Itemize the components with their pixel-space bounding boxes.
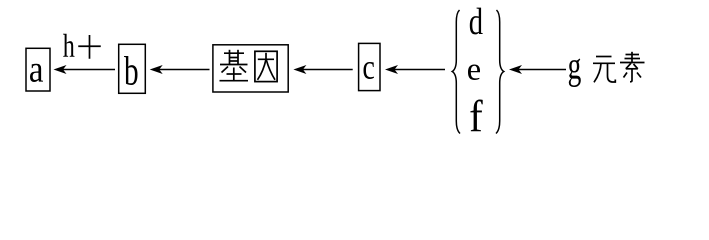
label plus sign bbox=[78, 35, 101, 59]
hanzi SU (element) strokes bbox=[620, 52, 645, 82]
label h bbox=[63, 34, 75, 57]
right curly brace bbox=[496, 10, 504, 134]
arrow 2 head bbox=[150, 65, 163, 74]
arrow 5 (g to brace) wire bbox=[518, 69, 567, 71]
arrow 1 head bbox=[54, 65, 67, 74]
left curly brace bbox=[452, 10, 460, 134]
letter f bbox=[470, 100, 482, 132]
box a bbox=[26, 48, 50, 91]
box gene (basic) bbox=[213, 45, 288, 92]
arrow 4 head bbox=[385, 65, 398, 74]
arrow 3 head bbox=[293, 65, 306, 74]
arrow 1 (b to a) wire bbox=[62, 69, 115, 71]
letter b bbox=[124, 56, 138, 85]
letter d bbox=[470, 8, 483, 35]
arrow 3 (c to gene) wire bbox=[302, 69, 353, 71]
arrow 2 (gene to b) wire bbox=[158, 69, 210, 71]
letter c bbox=[364, 62, 375, 79]
hanzi YIN (cause) strokes bbox=[255, 51, 277, 81]
arrow 4 (brace to c) wire bbox=[394, 69, 445, 71]
letter e bbox=[468, 65, 480, 81]
hanzi YUAN (element) strokes bbox=[593, 57, 615, 83]
letter g bbox=[569, 59, 581, 88]
box b bbox=[119, 44, 146, 93]
box c bbox=[359, 43, 380, 90]
letter a bbox=[30, 64, 43, 82]
hanzi JI (base) strokes bbox=[220, 50, 249, 81]
arrow 5 head bbox=[509, 65, 522, 74]
